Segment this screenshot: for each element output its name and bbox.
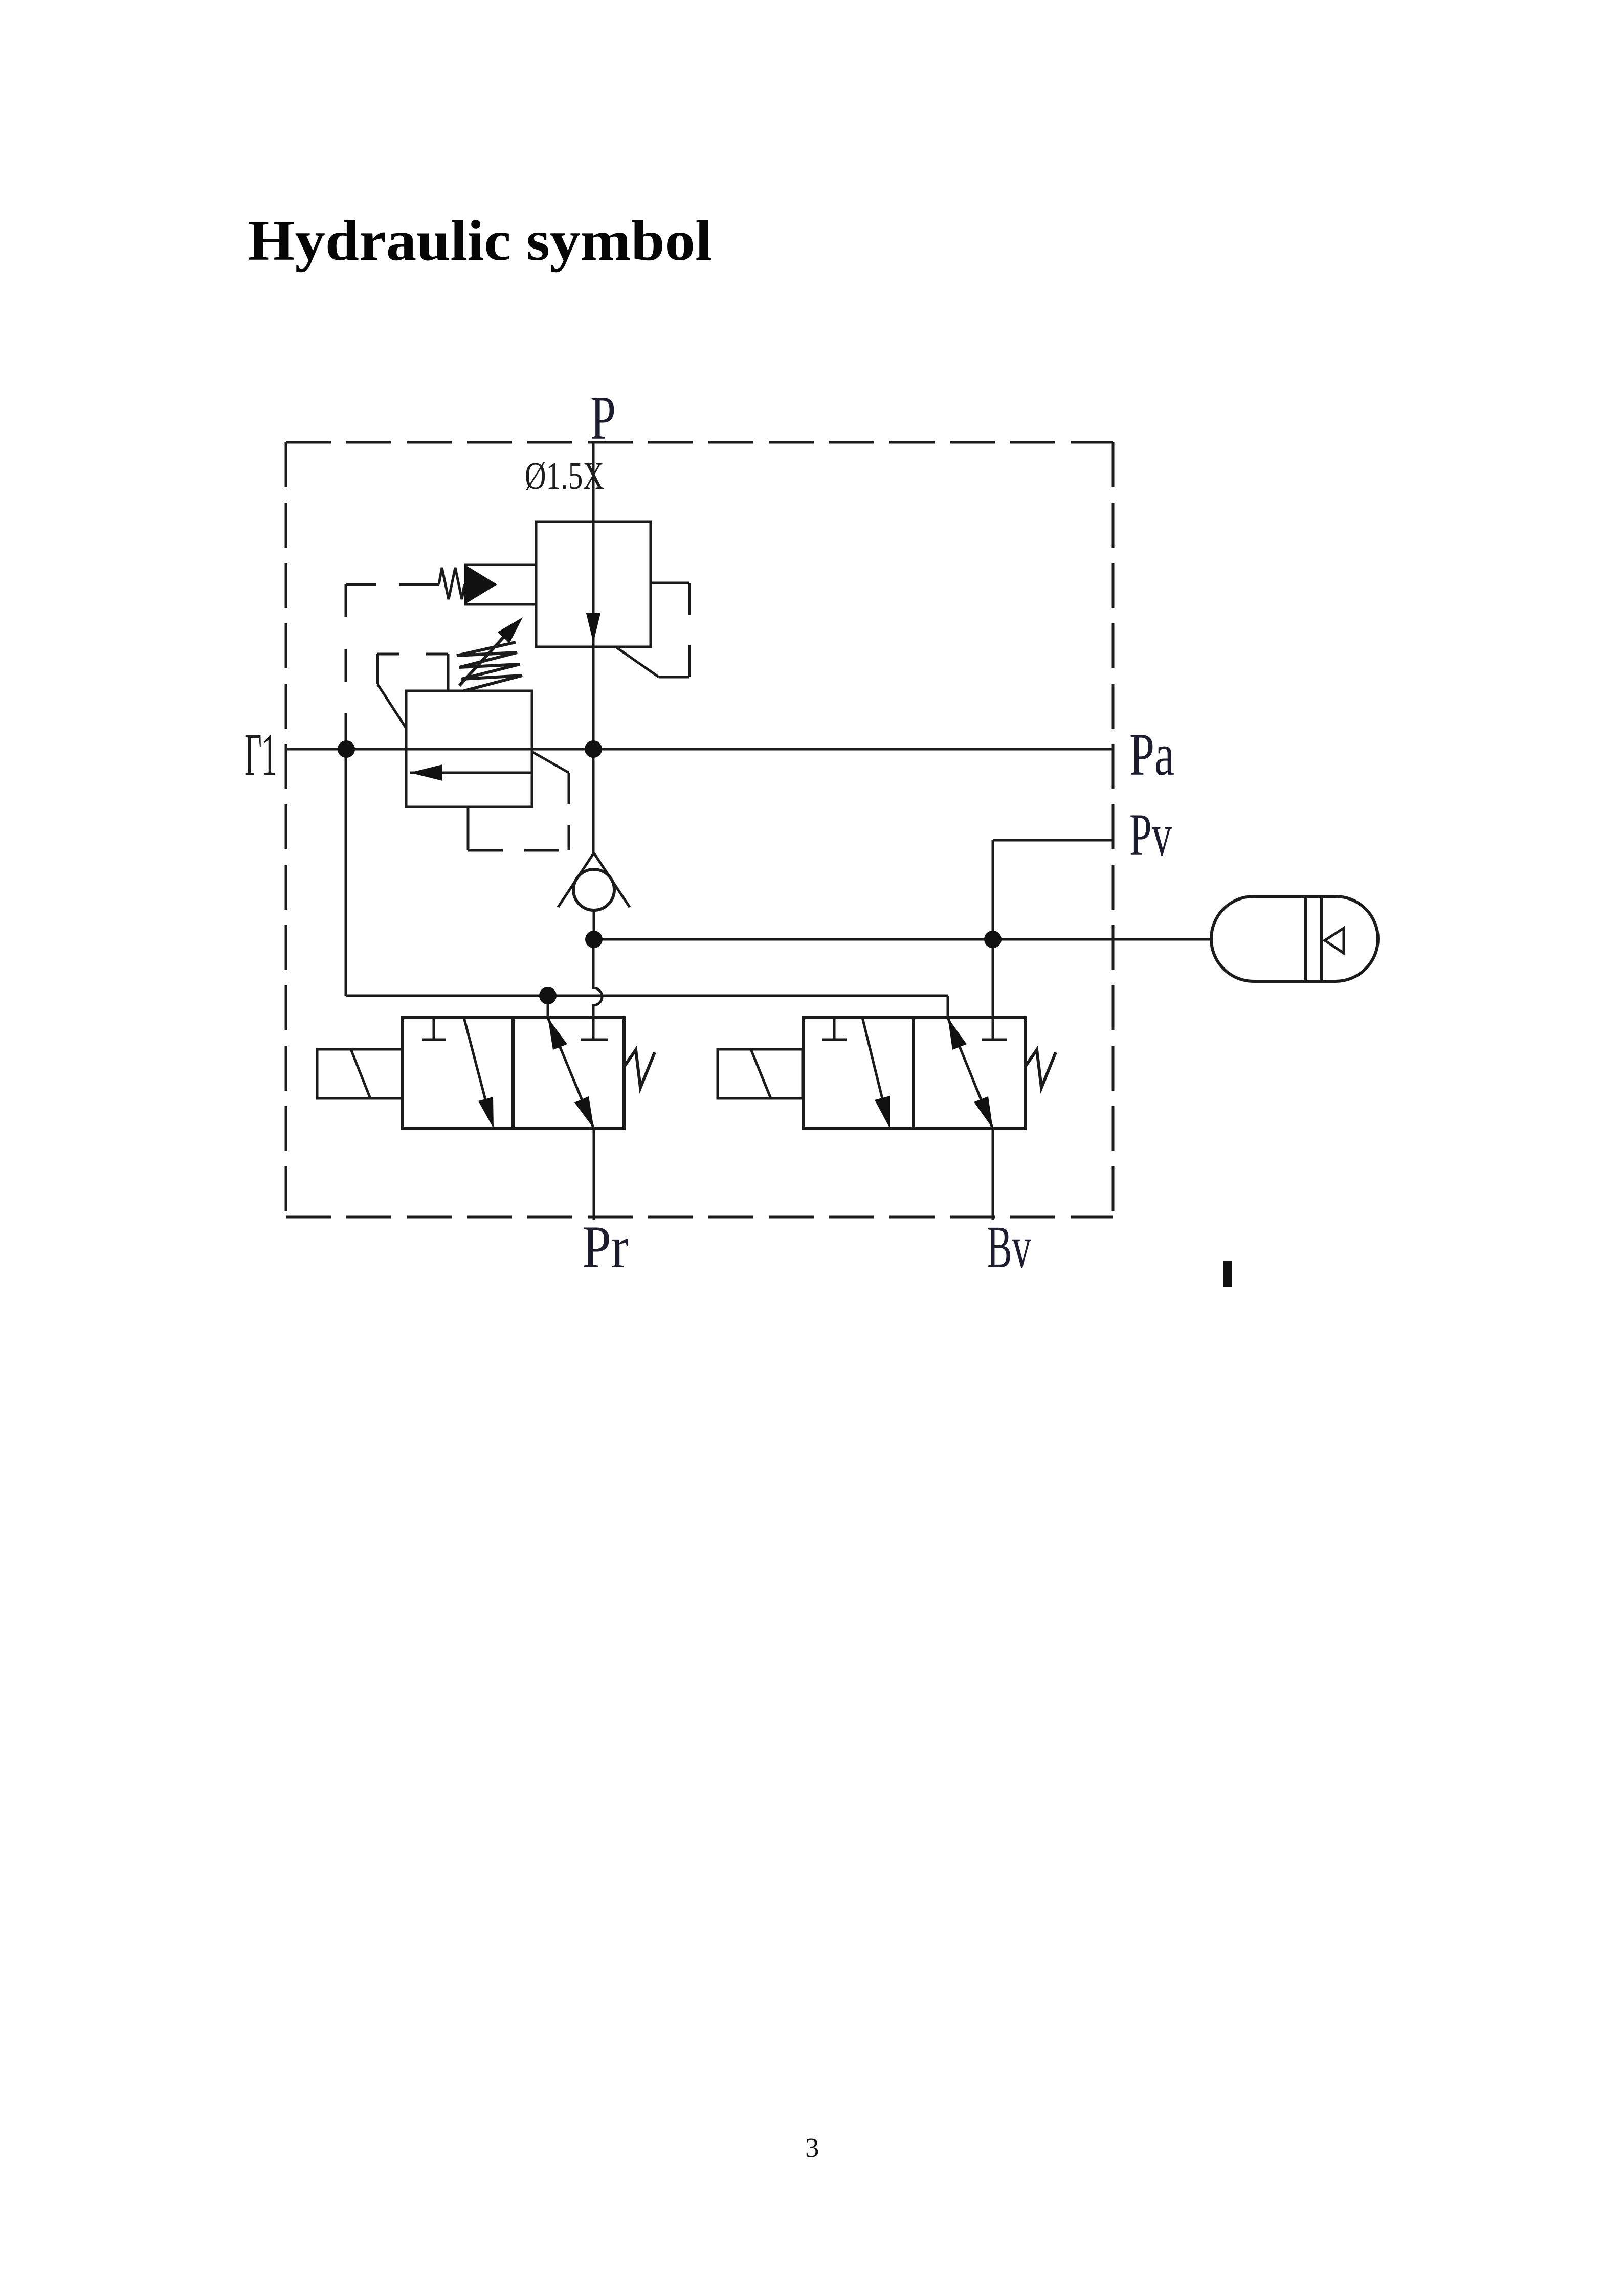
wire Pr below S1 (593, 1129, 595, 1220)
solenoid valve S1 body right square (513, 1018, 624, 1129)
check valve V1 ball circle (573, 869, 614, 910)
accumulator gas triangle (1325, 928, 1344, 953)
junction node P main (585, 740, 602, 758)
enclosure dashed box bottom (286, 1216, 1113, 1219)
svg-text:Hydraulic symbol: Hydraulic symbol (248, 209, 712, 273)
junction node T1 (338, 740, 355, 758)
S2 right flow arrowhead bottom (974, 1096, 993, 1129)
svg-text:P: P (590, 384, 616, 453)
S1 right flow arrowhead top (548, 1018, 567, 1050)
solenoid valve S1 body left square (403, 1018, 513, 1129)
reducing valve pilot dashed vertical right (568, 773, 570, 850)
relief valve right pilot loop top (651, 582, 689, 584)
dashed pilot lead left (346, 583, 403, 586)
S1 left flow arrowhead (478, 1097, 494, 1129)
S2 right square flow diagonal (948, 1018, 993, 1129)
relief valve left pilot channel top line (464, 564, 536, 566)
wire below check valve (593, 910, 595, 939)
enclosure dashed box top (286, 441, 1113, 444)
relief valve spring left (439, 568, 464, 599)
solenoid S2 coil diagonal (751, 1049, 771, 1098)
solenoid S1 coil diagonal (351, 1049, 370, 1098)
svg-text:Pa: Pa (1129, 721, 1174, 788)
reducing valve left arrowhead (410, 764, 442, 781)
accumulator piston line 2 (1320, 896, 1323, 981)
S1 blocked port T left square bar (422, 1039, 446, 1041)
reducing valve top pilot bracket dashed horizontal (377, 653, 448, 656)
junction node Pv branch (984, 931, 1002, 948)
junction node below check valve (585, 931, 603, 948)
reducing valve top pilot bracket left vertical (376, 654, 379, 684)
svg-text:Pr: Pr (582, 1213, 629, 1280)
enclosure dashed box right (1112, 442, 1115, 1217)
relief valve left pilot channel bottom line (464, 603, 536, 606)
svg-text:Γ1: Γ1 (244, 721, 277, 788)
reducing valve drain dashed horizontal (468, 849, 570, 852)
reducing valve top pilot bracket right vertical (447, 654, 450, 691)
relief valve right pilot diagonal (616, 647, 659, 677)
wire vertical from T1 junction down (345, 713, 347, 996)
reducing valve internal flow line (410, 772, 532, 774)
S1 return spring (624, 1050, 655, 1088)
relief valve down arrowhead (586, 613, 600, 643)
accumulator piston line 1 (1304, 896, 1307, 981)
reducing valve adjustment arrow shaft (459, 628, 511, 686)
solenoid S1 coil box (317, 1049, 403, 1098)
S2 left square flow diagonal (862, 1018, 887, 1117)
junction node feed (539, 987, 557, 1004)
relief valve right pilot loop vertical dashed (688, 583, 691, 677)
pressure reducing valve U2 body square (406, 691, 532, 807)
reducing valve adjustable spring zigzag (457, 642, 522, 691)
check valve V1 seat right leg (594, 853, 630, 907)
wire horizontal feed to valves (346, 995, 948, 997)
S2 right flow arrowhead top (948, 1018, 967, 1050)
check valve V1 seat left leg (558, 853, 594, 907)
wire vertical hop over feed line (593, 939, 602, 1039)
relief valve pilot solid triangle (464, 565, 497, 604)
reducing valve top pilot diagonal leader (377, 684, 406, 728)
enclosure dashed box left (285, 442, 287, 1217)
solenoid S2 coil box (718, 1049, 803, 1098)
wire Pv horizontal stub (993, 839, 1113, 842)
wire P vertical from port P down to check valve (592, 442, 595, 853)
stray tick mark (1223, 1261, 1232, 1287)
S2 left flow arrowhead (875, 1096, 890, 1129)
reducing valve drain vertical (467, 807, 470, 850)
S1 left square flow diagonal (464, 1018, 490, 1117)
wire stub from junction into left valve (547, 996, 549, 1018)
wire corner down to right valve (947, 996, 949, 1018)
accumulator A1 shell (1211, 896, 1378, 981)
wire pilot vertical dashed below T1 junction (345, 584, 347, 713)
S2 blocked port T left square bar (822, 1039, 847, 1041)
svg-text:3: 3 (805, 2132, 819, 2163)
wire Pv vertical (992, 840, 994, 1039)
S2 return spring (1025, 1050, 1056, 1088)
wire accumulator line (594, 938, 1211, 941)
S1 right flow arrowhead bottom (574, 1096, 594, 1129)
wire lead to relief spring (403, 583, 439, 586)
reducing valve adjust arrowhead (498, 617, 523, 643)
wire Bv below S2 (992, 1129, 994, 1220)
svg-text:Pv: Pv (1129, 801, 1172, 868)
S1 blocked port T right square bar (581, 1039, 608, 1041)
reducing valve pilot diagonal right (532, 752, 569, 773)
solenoid valve S2 body right square (914, 1018, 1025, 1129)
relief valve right pilot loop bottom (659, 676, 689, 679)
svg-text:Bv: Bv (987, 1213, 1031, 1280)
S2 blocked port T right square bar (982, 1039, 1007, 1041)
S2 blocked port T left square stem (833, 1018, 836, 1039)
relief valve U1 body square (536, 522, 651, 647)
wire main line T1 to Pa (287, 748, 1113, 751)
S1 blocked port T left square stem (433, 1018, 435, 1039)
S1 right square flow diagonal (548, 1018, 594, 1129)
svg-text:Ø1.5X: Ø1.5X (525, 455, 604, 498)
solenoid valve S2 body left square (804, 1018, 914, 1129)
